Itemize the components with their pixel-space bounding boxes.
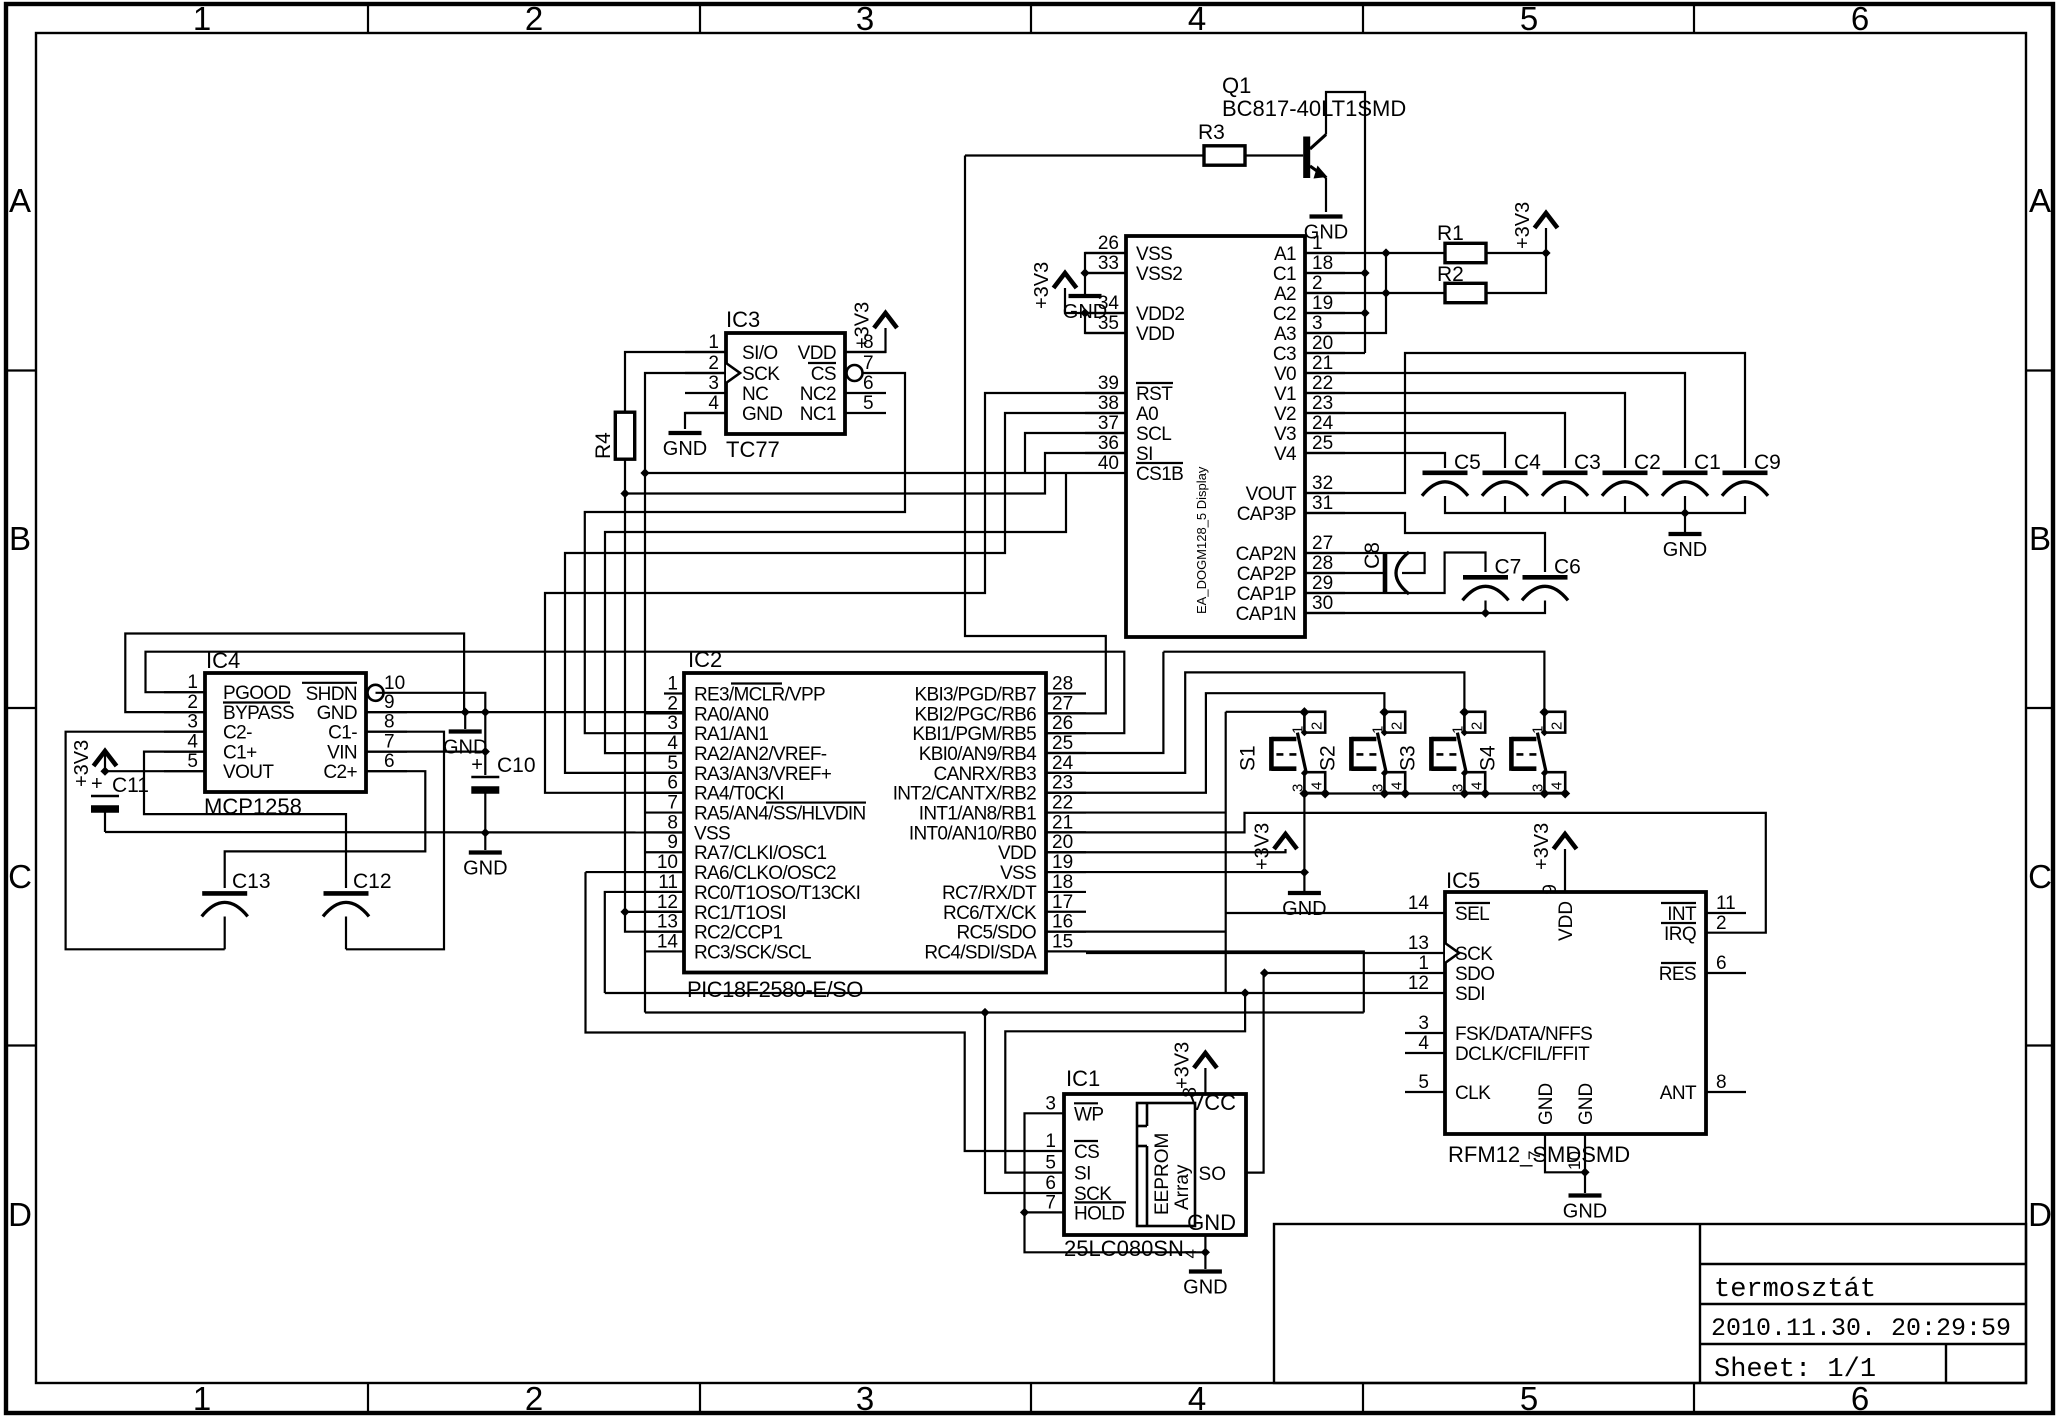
wire <box>1305 352 1365 354</box>
switch S2 <box>1316 712 1405 793</box>
svg-text:SO: SO <box>1199 1164 1226 1185</box>
svg-text:1: 1 <box>193 1380 211 1417</box>
svg-text:RA1/AN1: RA1/AN1 <box>694 724 768 745</box>
svg-text:15: 15 <box>1052 931 1073 952</box>
IC2 pin 2 RA0/AN0 <box>644 693 768 725</box>
wire <box>965 156 1106 714</box>
wire <box>1163 652 1544 712</box>
wire <box>345 917 347 950</box>
wire <box>586 872 1065 1151</box>
svg-text:39: 39 <box>1098 373 1119 394</box>
svg-text:V3: V3 <box>1274 424 1296 445</box>
display pin 38 A0 <box>1085 393 1158 425</box>
wire <box>464 712 466 729</box>
junction <box>461 708 470 717</box>
svg-text:RC1/T1OSI: RC1/T1OSI <box>694 903 786 924</box>
svg-text:24: 24 <box>1312 413 1334 434</box>
wire <box>1245 154 1303 156</box>
svg-text:Array: Array <box>1172 1164 1193 1210</box>
wire <box>1025 433 1126 473</box>
svg-text:CAP2N: CAP2N <box>1236 544 1296 565</box>
svg-text:13: 13 <box>657 912 678 933</box>
svg-text:+: + <box>471 754 483 776</box>
svg-text:NC2: NC2 <box>800 384 836 405</box>
svg-text:termosztát: termosztát <box>1714 1275 1876 1305</box>
wire <box>645 373 726 473</box>
svg-text:+3V3: +3V3 <box>1252 823 1274 870</box>
wire <box>1046 693 1384 793</box>
svg-text:SI/O: SI/O <box>742 343 778 364</box>
svg-text:CAP1P: CAP1P <box>1237 584 1296 605</box>
svg-text:7: 7 <box>384 732 395 753</box>
IC5 pin 11 INT <box>1661 893 1746 925</box>
svg-text:6: 6 <box>667 773 678 794</box>
svg-text:GND: GND <box>1663 539 1707 561</box>
svg-text:VDD2: VDD2 <box>1136 304 1184 325</box>
svg-text:5: 5 <box>863 393 874 414</box>
svg-text:6: 6 <box>1045 1173 1056 1194</box>
wire <box>104 809 106 832</box>
frame column labels bottom <box>193 1380 1869 1417</box>
display pin 1 A1 <box>1274 233 1345 265</box>
svg-text:3: 3 <box>667 713 678 734</box>
wire <box>624 459 626 494</box>
wire <box>1225 712 1227 993</box>
IC2 MCLR overline <box>731 682 782 684</box>
resistor R2 <box>1437 263 1486 303</box>
IC5 pin 5 CLK <box>1405 1072 1491 1104</box>
svg-text:C3: C3 <box>1574 451 1601 474</box>
svg-text:7: 7 <box>863 353 874 374</box>
svg-text:22: 22 <box>1312 373 1333 394</box>
svg-text:10: 10 <box>1565 1151 1584 1170</box>
svg-text:RC3/SCK/SCL: RC3/SCK/SCL <box>694 942 811 963</box>
svg-text:2: 2 <box>525 0 543 37</box>
svg-text:C7: C7 <box>1495 555 1522 578</box>
junction <box>481 708 490 717</box>
svg-text:21: 21 <box>1312 353 1333 374</box>
svg-text:3: 3 <box>708 373 719 394</box>
svg-text:2: 2 <box>1312 273 1323 294</box>
svg-text:1: 1 <box>187 672 198 693</box>
svg-text:C12: C12 <box>353 870 392 893</box>
svg-text:B: B <box>2029 520 2051 557</box>
svg-text:4: 4 <box>1418 1033 1429 1054</box>
IC2 pin 3 RA1/AN1 <box>644 713 768 745</box>
svg-text:26: 26 <box>1052 713 1073 734</box>
svg-text:2: 2 <box>1548 722 1565 730</box>
svg-text:30: 30 <box>1312 593 1333 614</box>
wire <box>105 770 205 772</box>
svg-text:MCP1258: MCP1258 <box>204 794 302 819</box>
svg-text:SI: SI <box>1136 444 1153 465</box>
svg-text:4: 4 <box>1388 782 1405 790</box>
junction <box>1299 707 1309 717</box>
wire <box>1504 496 1506 513</box>
svg-text:2: 2 <box>1388 722 1405 730</box>
capacitor C12 <box>323 893 369 916</box>
switch S3 <box>1396 712 1485 793</box>
IC4 pin 10 SHDN <box>302 673 405 705</box>
IC2 pin 14 RC3/SCK/SCL <box>644 931 811 963</box>
wire <box>586 871 685 873</box>
IC2 pin 10 RA6/CLKO/OSC2 <box>644 852 836 884</box>
resistor R3 <box>1198 121 1245 165</box>
wire <box>1305 553 1486 594</box>
display pin 25 V4 <box>1274 433 1345 465</box>
IC2 pin 23 INT2/CANTX/RB2 <box>893 773 1086 805</box>
svg-text:11: 11 <box>658 872 678 893</box>
svg-text:6: 6 <box>1716 953 1727 974</box>
svg-text:25: 25 <box>1052 733 1073 754</box>
wire <box>1484 601 1486 614</box>
svg-text:25LC080SN: 25LC080SN <box>1064 1236 1184 1261</box>
wire <box>1325 178 1327 213</box>
svg-text:3: 3 <box>187 712 198 733</box>
wire <box>585 373 905 733</box>
svg-text:26: 26 <box>1098 233 1119 254</box>
ground below C10 <box>463 853 507 880</box>
junction <box>1241 988 1250 997</box>
svg-text:7: 7 <box>1525 1151 1544 1160</box>
IC3 pin 4 GND <box>685 393 782 425</box>
junction <box>1300 868 1309 877</box>
svg-text:CS1B: CS1B <box>1136 464 1183 485</box>
svg-text:RA5/AN4/SS/HLVDIN: RA5/AN4/SS/HLVDIN <box>694 804 865 825</box>
svg-text:ANT: ANT <box>1660 1083 1697 1104</box>
svg-text:6: 6 <box>384 751 395 772</box>
IC2 pin 21 INT0/AN10/RB0 <box>909 812 1086 844</box>
svg-text:3: 3 <box>856 0 874 37</box>
wire <box>605 473 1066 753</box>
svg-text:20: 20 <box>1312 333 1333 354</box>
IC4 pin 2 BYPASS <box>164 692 294 724</box>
wire <box>1305 553 1425 573</box>
capacitor C1 <box>1662 451 1721 496</box>
IC2 pin 20 VDD <box>998 832 1086 864</box>
svg-text:GND: GND <box>1576 1083 1597 1125</box>
IC2 pin 1 RE3/MCLR/VPP <box>664 674 825 706</box>
svg-text:4: 4 <box>1181 1249 1200 1258</box>
svg-text:GND: GND <box>1183 1277 1227 1299</box>
wire <box>625 453 1126 494</box>
svg-text:1: 1 <box>1045 1131 1056 1152</box>
display pin 35 VDD <box>1085 313 1174 345</box>
svg-text:C: C <box>2028 858 2052 895</box>
+3V3 supply <box>1031 262 1077 309</box>
display pin 20 C3 <box>1273 333 1345 365</box>
wire <box>1486 252 1546 254</box>
wire <box>1046 813 1766 933</box>
wire <box>1046 871 1304 873</box>
junction <box>1580 1168 1589 1177</box>
wire <box>1305 312 1365 314</box>
svg-text:CLK: CLK <box>1455 1083 1491 1104</box>
svg-text:VDD: VDD <box>1136 324 1174 345</box>
svg-text:VOUT: VOUT <box>1246 484 1297 505</box>
display pin 39 RST <box>1085 373 1173 405</box>
svg-text:GND: GND <box>1304 222 1348 244</box>
svg-text:5: 5 <box>1520 1380 1538 1417</box>
wire <box>376 693 486 775</box>
+3V3 supply <box>1171 1042 1217 1089</box>
svg-text:C1-: C1- <box>328 723 357 744</box>
svg-text:IC1: IC1 <box>1066 1066 1100 1091</box>
svg-text:3: 3 <box>1045 1093 1056 1114</box>
display pin 27 CAP2N <box>1236 533 1345 565</box>
svg-text:IC3: IC3 <box>726 307 760 332</box>
frame row ticks right <box>2026 371 2053 1046</box>
IC5 SCK clock arrow <box>1445 943 1459 963</box>
IC2 pin 5 RA3/AN3/VREF+ <box>644 753 832 785</box>
IC2 pin 12 RC1/T1OSI <box>644 892 786 924</box>
ground below IC4 <box>443 732 487 759</box>
IC1 pin 7 HOLD <box>1045 1192 1126 1224</box>
svg-text:S4: S4 <box>1476 745 1499 771</box>
junction <box>1539 707 1549 717</box>
svg-text:6: 6 <box>1851 1380 1869 1417</box>
svg-text:CAP2P: CAP2P <box>1237 564 1296 585</box>
svg-text:8: 8 <box>384 712 395 733</box>
transistor Q1 <box>1303 135 1327 179</box>
svg-text:11: 11 <box>1716 893 1736 914</box>
svg-text:36: 36 <box>1098 433 1119 454</box>
svg-text:C10: C10 <box>497 754 536 777</box>
IC3 pin 3 NC <box>685 373 768 405</box>
svg-text:4: 4 <box>187 732 198 753</box>
capacitor C2 <box>1602 451 1661 496</box>
wire <box>1204 1068 1206 1094</box>
svg-text:C2: C2 <box>1634 451 1661 474</box>
display pin 22 V1 <box>1274 373 1345 405</box>
wire <box>146 652 1125 734</box>
svg-text:C9: C9 <box>1754 451 1781 474</box>
svg-text:TC77: TC77 <box>726 437 780 462</box>
svg-text:1: 1 <box>708 332 719 353</box>
display pin 18 C1 <box>1273 253 1345 285</box>
wire <box>1226 912 1445 914</box>
junction <box>620 907 629 916</box>
svg-text:9: 9 <box>384 692 395 713</box>
wire <box>1305 252 1445 254</box>
svg-text:12: 12 <box>657 892 678 913</box>
IC5 pin 6 RES <box>1659 953 1746 985</box>
junction <box>640 468 649 477</box>
svg-text:NC1: NC1 <box>800 404 836 425</box>
svg-text:13: 13 <box>1408 933 1429 954</box>
junction <box>1481 608 1490 617</box>
svg-text:GND: GND <box>1563 1201 1607 1223</box>
junction <box>1201 1248 1210 1257</box>
svg-text:VDD: VDD <box>1556 901 1577 941</box>
svg-text:KBI3/PGD/RB7: KBI3/PGD/RB7 <box>915 685 1037 706</box>
IC2 pin 18 RC7/RX/DT <box>942 872 1086 904</box>
IC1 pin 5 SI <box>1045 1153 1090 1185</box>
junction <box>1260 968 1269 977</box>
svg-text:+3V3: +3V3 <box>71 740 93 787</box>
svg-text:VDD: VDD <box>798 343 836 364</box>
eeprom IC1 box <box>1064 1094 1246 1235</box>
wire <box>1345 253 1386 333</box>
svg-text:1: 1 <box>1529 726 1546 734</box>
junction <box>1299 789 1309 799</box>
IC3 pin 1 SI/O <box>685 332 778 364</box>
display pin 28 CAP2P <box>1237 553 1345 585</box>
wire <box>1584 1134 1586 1193</box>
svg-text:IC2: IC2 <box>688 647 722 672</box>
svg-text:14: 14 <box>1408 893 1430 914</box>
svg-text:C11: C11 <box>112 774 149 797</box>
svg-text:A2: A2 <box>1274 284 1296 305</box>
IC2 pin 15 RC4/SDI/SDA <box>924 931 1086 963</box>
wire <box>1305 601 1545 614</box>
svg-text:RA0/AN0: RA0/AN0 <box>694 704 768 725</box>
svg-text:VSS: VSS <box>694 823 730 844</box>
svg-text:CAP3P: CAP3P <box>1237 504 1296 525</box>
svg-text:C1: C1 <box>1273 264 1296 285</box>
junction <box>1320 789 1330 799</box>
+3V3 supply <box>71 740 117 787</box>
svg-text:GND: GND <box>742 404 782 425</box>
capacitor C3 <box>1542 451 1601 496</box>
svg-text:16: 16 <box>1052 912 1073 933</box>
svg-text:GND: GND <box>663 438 707 460</box>
svg-text:19: 19 <box>1312 293 1333 314</box>
title block box <box>1274 1224 2026 1383</box>
junction <box>1381 248 1390 257</box>
resistor R1 <box>1437 222 1486 263</box>
svg-text:2: 2 <box>1468 722 1485 730</box>
svg-text:14: 14 <box>657 931 679 952</box>
junction <box>980 1008 989 1017</box>
wire <box>1305 413 1565 468</box>
wire <box>1046 849 1286 852</box>
IC1 pin 3 WP <box>1045 1093 1103 1125</box>
svg-text:RA7/CLKI/OSC1: RA7/CLKI/OSC1 <box>694 843 827 864</box>
+3V3 supply <box>1252 823 1298 870</box>
svg-text:RC5/SDO: RC5/SDO <box>956 923 1036 944</box>
wire <box>1684 496 1686 513</box>
ground below C1 <box>1663 534 1707 561</box>
svg-text:3: 3 <box>856 1380 874 1417</box>
ground below IC3 <box>663 433 707 460</box>
svg-text:C1: C1 <box>1694 451 1721 474</box>
display pin 40 CS1B <box>1085 453 1183 485</box>
wire <box>625 494 684 932</box>
svg-text:12: 12 <box>1408 973 1429 994</box>
svg-text:33: 33 <box>1098 253 1119 274</box>
capacitor C9 <box>1722 451 1781 496</box>
svg-text:5: 5 <box>1520 0 1538 37</box>
svg-text:V1: V1 <box>1274 384 1296 405</box>
IC5 pin 13 SCK <box>1408 933 1493 965</box>
junction <box>100 767 109 776</box>
svg-text:V4: V4 <box>1274 444 1297 465</box>
svg-text:C8: C8 <box>1361 542 1384 569</box>
wire <box>1085 272 1126 274</box>
svg-text:C5: C5 <box>1454 451 1481 474</box>
+3V3 supply <box>1512 202 1558 249</box>
IC2 pin 8 VSS <box>644 812 730 844</box>
wire <box>1086 952 1445 954</box>
svg-text:7: 7 <box>1045 1192 1056 1213</box>
IC5 pin 8 ANT <box>1660 1072 1746 1104</box>
svg-text:VIN: VIN <box>327 743 357 764</box>
IC5 GND rotated labels <box>1536 1083 1597 1125</box>
svg-text:PGOOD: PGOOD <box>223 683 291 704</box>
junction <box>1080 308 1089 317</box>
svg-text:KBI2/PGC/RB6: KBI2/PGC/RB6 <box>915 704 1037 725</box>
capacitor C7 <box>1463 555 1522 600</box>
IC5 pin 14 SEL <box>1408 893 1490 925</box>
switch S1 <box>1236 712 1325 793</box>
svg-text:INT1/AN8/RB1: INT1/AN8/RB1 <box>919 804 1036 825</box>
IC2 pin 28 KBI3/PGD/RB7 <box>915 674 1086 706</box>
wire <box>1303 794 1305 892</box>
wire <box>1046 951 1364 1012</box>
svg-text:S2: S2 <box>1316 745 1339 771</box>
IC2 pin 26 KBI1/PGM/RB5 <box>912 713 1086 745</box>
wire <box>1046 652 1163 753</box>
svg-text:BYPASS: BYPASS <box>223 703 294 724</box>
svg-text:GND: GND <box>317 703 357 724</box>
transistor Q1 labels <box>1222 73 1406 121</box>
svg-text:S1: S1 <box>1236 745 1259 771</box>
svg-text:37: 37 <box>1098 413 1119 434</box>
svg-text:RC6/TX/CK: RC6/TX/CK <box>943 903 1037 924</box>
capacitor C5 <box>1422 451 1481 496</box>
ground below IC1 <box>1183 1272 1227 1299</box>
wire <box>1204 1252 1206 1269</box>
display pin 37 SCL <box>1085 413 1171 445</box>
svg-text:3: 3 <box>1418 1013 1429 1034</box>
junction <box>1400 789 1410 799</box>
junction <box>1360 268 1369 277</box>
svg-text:INT0/AN10/RB0: INT0/AN10/RB0 <box>909 823 1036 844</box>
wire <box>1305 373 1685 468</box>
wire <box>1305 332 1345 334</box>
svg-text:+3V3: +3V3 <box>1531 823 1553 870</box>
capacitor C11 <box>91 773 119 809</box>
wire <box>1684 513 1686 532</box>
+3V3 supply <box>1531 823 1577 870</box>
svg-text:V0: V0 <box>1274 364 1296 385</box>
svg-text:2: 2 <box>1308 722 1325 730</box>
svg-text:1: 1 <box>193 0 211 37</box>
display pin 24 V3 <box>1274 413 1345 445</box>
svg-text:8: 8 <box>1180 1087 1201 1098</box>
IC4 pin 7 VIN <box>327 732 407 764</box>
svg-text:4: 4 <box>708 393 719 414</box>
svg-text:EEPROM: EEPROM <box>1152 1133 1173 1215</box>
wire <box>1046 672 1464 772</box>
svg-text:19: 19 <box>1052 852 1073 873</box>
svg-text:4: 4 <box>1308 782 1325 790</box>
svg-text:2: 2 <box>525 1380 543 1417</box>
wire <box>685 413 726 429</box>
svg-text:32: 32 <box>1312 473 1333 494</box>
wire <box>104 752 106 771</box>
wire <box>1486 253 1546 293</box>
svg-text:IC5: IC5 <box>1446 868 1480 893</box>
svg-text:CS: CS <box>1074 1142 1099 1163</box>
svg-text:RA6/CLKO/OSC2: RA6/CLKO/OSC2 <box>694 863 836 884</box>
svg-text:WP: WP <box>1074 1104 1103 1125</box>
display pin 32 VOUT <box>1246 473 1345 505</box>
wire <box>1204 1235 1206 1252</box>
junction <box>1020 1208 1029 1217</box>
svg-text:SEL: SEL <box>1455 904 1489 925</box>
